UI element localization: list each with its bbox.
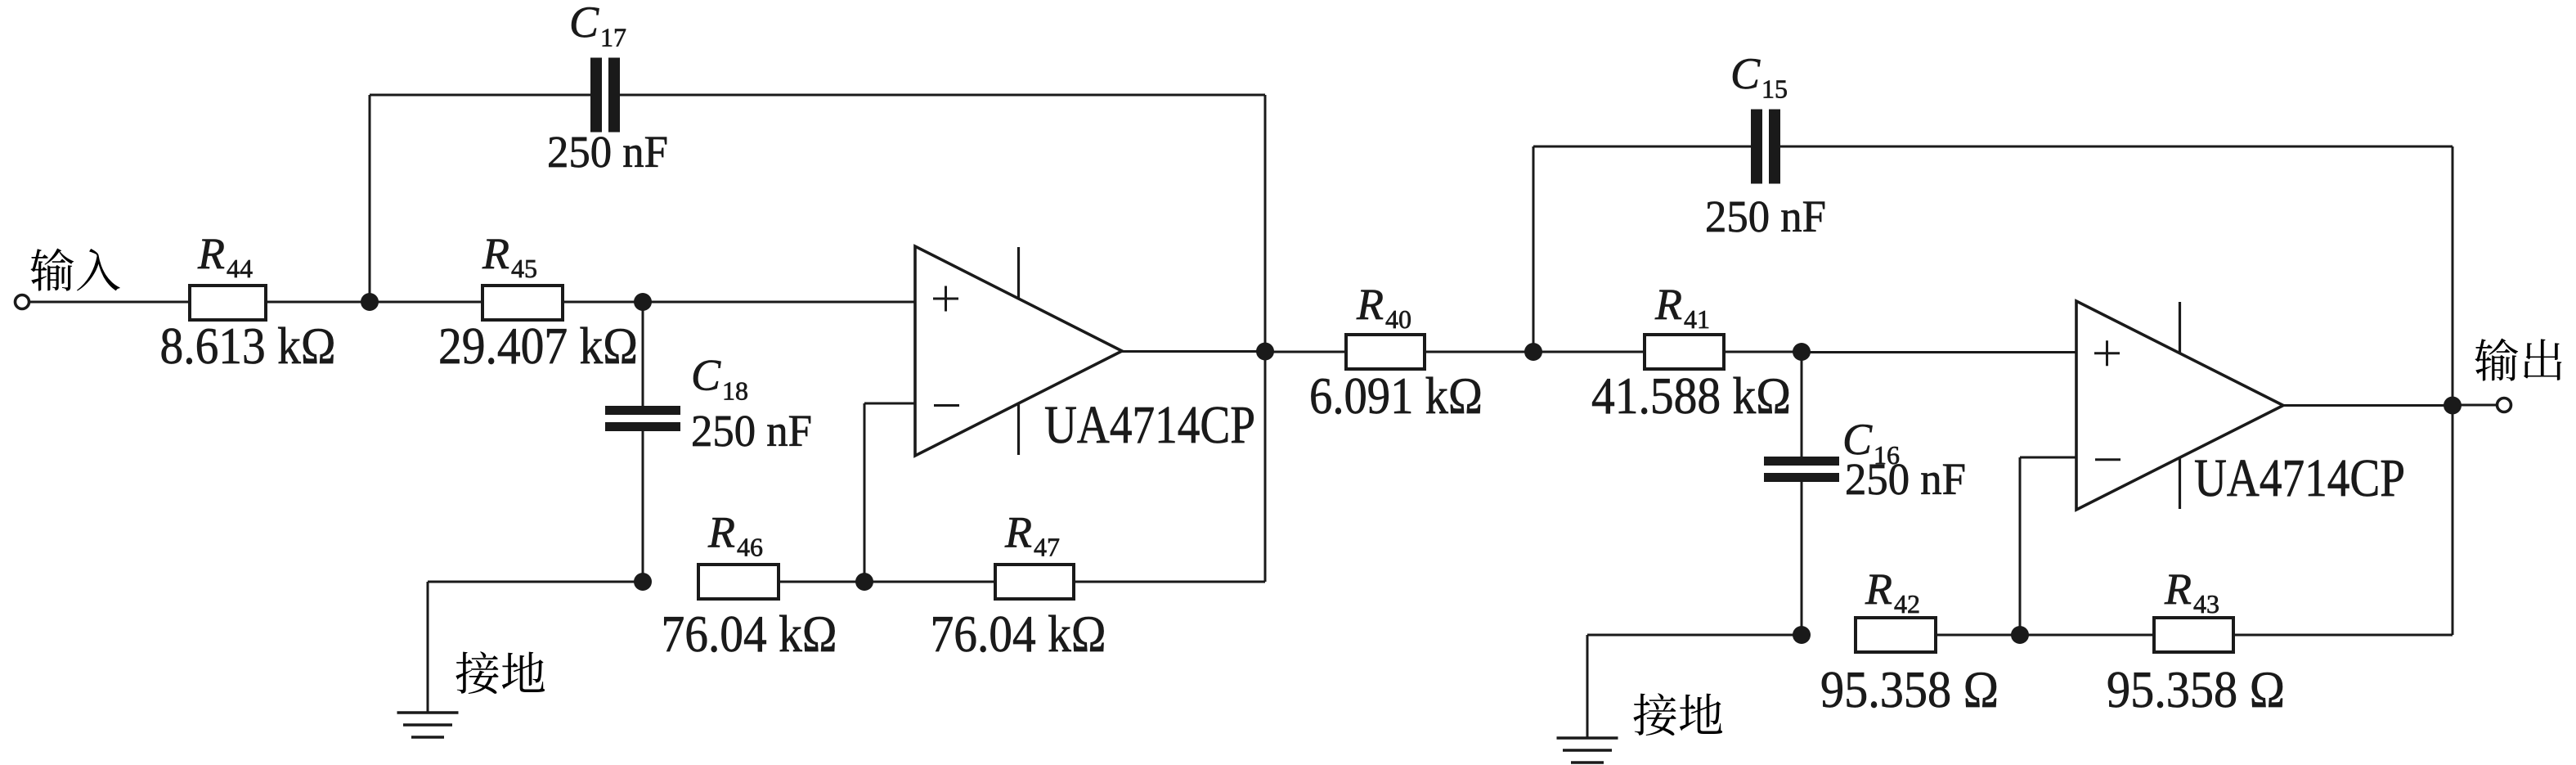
wire node J to R43 [2020, 634, 2154, 637]
svg-text:UA4714CP: UA4714CP [1044, 395, 1255, 455]
bottom rail wire from ground to node D [428, 581, 643, 583]
svg-text:46: 46 [737, 533, 763, 562]
resistor R41 body [1645, 335, 1724, 369]
wire to op-amp U1 inverting input [864, 403, 915, 405]
op-amp U1 positive supply pin [1017, 247, 1020, 299]
svg-text:R: R [2164, 565, 2192, 614]
svg-text:R: R [707, 508, 735, 557]
wire R43 to feedback vertical 2 [2235, 634, 2453, 637]
wire R42 to node J [1937, 634, 2020, 637]
svg-text:41: 41 [1684, 304, 1710, 334]
capacitor C17 plates [590, 58, 602, 133]
node H junction dot [1793, 343, 1811, 361]
op-amp U1 negative supply pin [1017, 403, 1020, 455]
node G junction dot [1524, 343, 1542, 361]
feedback vertical wire down to op-amp U1 output node [1264, 95, 1267, 582]
input terminal circle [16, 295, 29, 309]
resistor R43 body [2154, 618, 2233, 652]
wire R40 to node G [1426, 351, 1533, 353]
op-amp U2 plus input marking [2094, 352, 2120, 354]
svg-text:R: R [1356, 280, 1384, 329]
svg-text:250 nF: 250 nF [1705, 191, 1826, 241]
svg-text:R: R [482, 229, 509, 278]
wire node G up to top rail 2 [1533, 146, 1535, 352]
resistor R44 body [190, 286, 266, 320]
feedback vertical wire 2 down to output node [2452, 146, 2454, 635]
node D junction dot [634, 573, 652, 591]
capacitor C16 plates [1764, 457, 1839, 466]
svg-text:250 nF: 250 nF [547, 127, 668, 177]
node I junction dot [1793, 626, 1811, 644]
svg-text:R: R [1004, 508, 1032, 557]
svg-text:43: 43 [2193, 589, 2219, 619]
wire R44 to node A [267, 301, 370, 304]
op-amp U2 minus input marking [2095, 458, 2120, 461]
node A junction dot [361, 293, 379, 311]
capacitor C15 plates [1751, 110, 1762, 184]
wire node A to R45 [370, 301, 482, 304]
wire node E up to inverting input level [864, 403, 866, 582]
node B junction dot [634, 293, 652, 311]
op-amp U2 positive supply pin [2179, 302, 2181, 353]
svg-text:6.091 kΩ: 6.091 kΩ [1309, 367, 1483, 425]
wire node A up to top rail [369, 95, 371, 302]
wire node J up to inverting input level [2019, 457, 2022, 635]
svg-text:C: C [1730, 49, 1761, 98]
svg-text:R: R [197, 229, 225, 278]
output node junction dot [2444, 397, 2462, 415]
wire input to R44 [29, 301, 191, 304]
wire node F to R40 [1265, 351, 1346, 353]
svg-text:UA4714CP: UA4714CP [2194, 448, 2405, 508]
top feedback wire right of C17 [618, 94, 1265, 97]
svg-text:R: R [1865, 565, 1892, 614]
ground label 接地 [456, 651, 498, 694]
svg-text:45: 45 [511, 254, 537, 283]
resistor R46 body [698, 565, 779, 599]
wire node H to op-amp U2 noninverting input [1802, 351, 2076, 353]
top feedback wire 2 right of C15 [1779, 146, 2453, 148]
ground symbol stage 1 [397, 711, 459, 713]
op-amp U2 triangle [2076, 301, 2283, 510]
op-amp U1 triangle [915, 246, 1122, 456]
output terminal circle [2497, 398, 2511, 412]
op-amp U1 plus input marking [933, 298, 958, 300]
svg-text:C: C [691, 351, 721, 400]
wire R47 to feedback vertical [1075, 581, 1265, 583]
svg-text:47: 47 [1034, 533, 1060, 562]
resistor R42 body [1856, 618, 1936, 652]
wire op-amp U1 output to node F [1122, 350, 1265, 353]
node J junction dot [2011, 626, 2029, 644]
top feedback wire 2 left of C15 [1533, 146, 1752, 148]
resistor R45 body [482, 286, 563, 320]
svg-text:8.613 kΩ: 8.613 kΩ [160, 317, 336, 375]
wire R41 to node H [1726, 351, 1802, 353]
wire node B to op-amp U1 noninverting input [643, 301, 915, 304]
svg-text:29.407 kΩ: 29.407 kΩ [438, 317, 638, 375]
svg-text:250 nF: 250 nF [691, 406, 812, 456]
ground wire stage 2 [1586, 635, 1589, 738]
wire output node to output terminal [2453, 404, 2497, 407]
svg-text:40: 40 [1385, 304, 1411, 334]
wire node B down to C18 [642, 302, 644, 409]
capacitor C18 plates [605, 406, 680, 415]
svg-text:18: 18 [722, 376, 748, 406]
wire C18 down to bottom rail node D [642, 428, 644, 582]
svg-text:C: C [569, 0, 599, 47]
svg-text:42: 42 [1894, 589, 1920, 619]
top feedback wire left of C17 [370, 94, 592, 97]
op-amp U1 minus input marking [934, 404, 959, 407]
node E junction dot [855, 573, 873, 591]
resistor R40 body [1346, 335, 1425, 369]
node F junction dot (U1 output) [1256, 343, 1274, 361]
node label 输出 (output) [2475, 339, 2518, 381]
ground symbol stage 2 [1557, 736, 1618, 739]
svg-text:95.358 Ω: 95.358 Ω [2107, 660, 2285, 718]
wire node H down to C16 [1801, 352, 1803, 460]
svg-text:15: 15 [1761, 74, 1788, 104]
op-amp U2 negative supply pin [2179, 457, 2181, 509]
node label 输入 (input) [30, 249, 74, 291]
ground wire stage 1 [427, 582, 429, 713]
wire node E to R47 [864, 581, 995, 583]
svg-text:41.588 kΩ: 41.588 kΩ [1591, 367, 1791, 425]
svg-text:95.358 Ω: 95.358 Ω [1820, 660, 1999, 718]
resistor R47 body [995, 565, 1074, 599]
wire to op-amp U2 inverting input [2020, 457, 2076, 459]
svg-text:17: 17 [600, 23, 626, 52]
svg-text:76.04 kΩ: 76.04 kΩ [931, 605, 1106, 663]
svg-text:R: R [1654, 280, 1682, 329]
svg-text:250 nF: 250 nF [1845, 454, 1966, 504]
svg-text:44: 44 [227, 254, 253, 283]
wire R46 to node E [780, 581, 864, 583]
wire R45 to node B [564, 301, 643, 304]
wire node G to R41 [1533, 351, 1645, 353]
bottom rail wire 2 from ground to node I [1587, 634, 1802, 637]
ground label 接地 (stage 2) [1633, 693, 1676, 736]
svg-text:76.04 kΩ: 76.04 kΩ [662, 605, 837, 663]
wire C16 down to bottom rail node I [1801, 479, 1803, 635]
wire op-amp U2 output to output node [2283, 404, 2453, 407]
